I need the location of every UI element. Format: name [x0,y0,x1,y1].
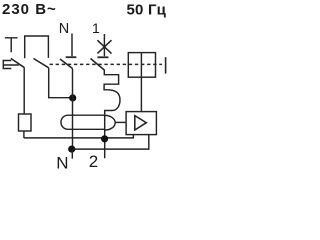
terminal N input stem [71,34,73,57]
wire: resistor bottom to test bus [23,131,25,138]
N pole moving blade [60,59,73,69]
mechanism linkage (dashed) [50,63,163,65]
pole 1 input wire [103,34,105,56]
linkage end tick [165,57,167,73]
wire: auxiliary pivot down and over to N wire [49,68,73,98]
svg-text:1: 1 [92,20,100,36]
svg-text:2: 2 [89,152,98,170]
node: test bus joins pole 1 wire [101,135,108,142]
N fixed contact bar [66,56,77,58]
contact: left auxiliary blade [34,59,49,68]
svg-text:N: N [56,153,68,170]
wire: N terminal lead [71,149,73,159]
wire: test blade pivot down to resistor [23,68,25,114]
test button SB housing [3,61,18,69]
secondary winding loop [105,115,115,130]
pole 1 moving blade [91,59,105,71]
amplifier triangle [135,116,147,130]
amplifier box U [126,112,156,135]
wire: test tap loop to N-pole fixed side [25,36,49,58]
test contact blade [11,58,25,67]
wire: N bus (line B) to amplifier bottom [72,135,149,150]
trip solenoid box [128,53,155,78]
wire: N pole down through toroid to bottom bus [72,69,74,149]
wire: solenoid divider down to amplifier [140,53,142,112]
resistor R (test resistor) [19,114,32,131]
svg-text:230 В~: 230 В~ [2,1,57,18]
pole 1 fixed contact bar [97,56,108,58]
test button T symbol (drawn T actuator) [5,38,18,53]
toroid core (differential transformer) [61,115,105,129]
wire: pole 1 with solenoid winding squiggle, down through toroid to terminal 2 [104,70,120,159]
svg-text:50 Гц: 50 Гц [127,2,167,19]
node: junction dot on N wire [69,94,76,101]
node: N bus junction dot [68,146,75,153]
svg-text:N: N [59,21,69,37]
wire: secondary to amplifier [115,121,126,123]
wire: test bus (line A) to amplifier box [24,135,133,138]
circuit-breaker X symbol [97,40,111,53]
